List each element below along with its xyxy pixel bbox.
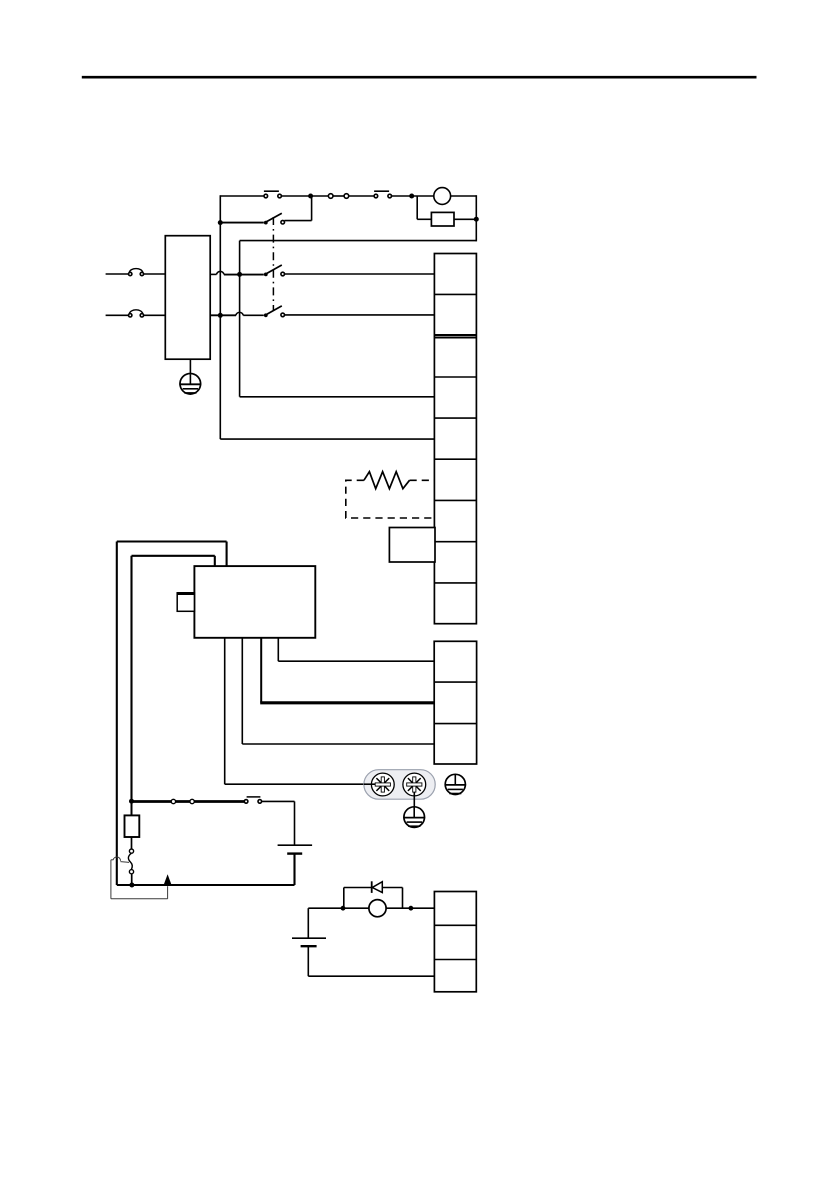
wire U1 pin2 to CN3 cell3 — [242, 638, 434, 744]
node H junction — [129, 883, 134, 888]
inline connector CN-N — [129, 310, 144, 317]
wire S3 to connector cell 2 — [284, 314, 434, 316]
wire diode bypass — [344, 888, 403, 909]
push-button PB3 — [244, 797, 261, 803]
battery BT2 — [292, 938, 326, 946]
wire to battery BT2 — [307, 908, 309, 938]
earth ground E3 — [445, 774, 467, 794]
node D junction — [218, 220, 223, 225]
wire right drop to relay coil — [417, 195, 476, 241]
meter M2 — [369, 900, 386, 917]
connector block CN1 — [434, 254, 476, 624]
AC input line L — [106, 273, 166, 275]
terminal screws plate — [364, 770, 435, 800]
page header rule — [82, 76, 757, 79]
switch S3 — [264, 306, 285, 317]
push-button PB1 — [264, 191, 282, 198]
push-button PB2 — [374, 191, 391, 198]
wire top control rung — [220, 195, 476, 197]
connector block CN5 — [434, 892, 476, 992]
wire loop outer to control board — [117, 542, 227, 886]
motor M1 — [434, 188, 451, 205]
node F junction — [218, 313, 223, 318]
relay coil K1 — [431, 212, 454, 226]
screw terminal TS1 — [364, 773, 394, 796]
sensor box U2 — [389, 528, 435, 563]
wire loop inner to control board — [132, 556, 215, 801]
switch S1 rung — [220, 196, 311, 223]
control board U1 — [194, 566, 315, 638]
wire TS2 earth lead — [413, 792, 415, 807]
inline connector CN-L — [129, 269, 144, 276]
chassis arrow — [163, 874, 171, 885]
battery BT1 — [278, 845, 313, 853]
wire U1 pin3 to CN3 cell2 heavy — [260, 638, 434, 703]
node A junction — [308, 194, 313, 199]
wire U1 pin4 to CN3 cell1 — [278, 638, 434, 661]
mechanical linkage dash-dot — [272, 217, 274, 311]
wire meter rung — [308, 907, 434, 909]
AC input line N — [106, 314, 166, 316]
inline connector CN4 — [128, 849, 133, 885]
resistor R1 — [364, 472, 410, 489]
switch S1 — [264, 213, 285, 224]
wire T1 earth lead — [189, 359, 191, 374]
chassis boundary thin outline — [111, 857, 168, 899]
node B junction — [409, 194, 414, 199]
wire line L right of box with crossover hump — [211, 271, 264, 274]
node E junction — [237, 272, 242, 277]
node J junction — [409, 906, 414, 911]
wire return line of relay circuit — [240, 241, 477, 397]
node I junction — [341, 906, 346, 911]
node C junction — [474, 217, 479, 222]
wire U1 pin1 to lamps — [225, 638, 365, 784]
wire bus1 to connector cell 5 — [220, 438, 434, 440]
earth ground E1 — [179, 374, 201, 395]
wire line N right of box with crossover hump — [211, 312, 264, 315]
connector tab CN2 — [177, 593, 194, 612]
switch S2 — [264, 265, 285, 276]
wire BT1 negative return — [117, 854, 295, 885]
wire S2 to connector cell 1 — [284, 273, 434, 275]
connector terminals J2 — [171, 799, 194, 803]
wire BT2 negative to CN5 cell3 — [308, 946, 434, 976]
node G junction — [129, 799, 134, 804]
power unit T1 box — [165, 236, 210, 360]
diode D1 — [372, 881, 383, 893]
thermistor R1 dashed probe box — [346, 480, 434, 518]
fuse F1 — [125, 802, 140, 850]
screw terminal TS2 — [403, 773, 426, 796]
earth ground E2 — [403, 807, 425, 828]
wire left vertical bus 1 — [219, 195, 221, 439]
wire PB3 to battery BT1 — [262, 801, 295, 845]
wire battery rung heavy — [132, 800, 245, 803]
connector terminals J1 — [328, 194, 348, 199]
connector block CN3 — [434, 641, 476, 764]
